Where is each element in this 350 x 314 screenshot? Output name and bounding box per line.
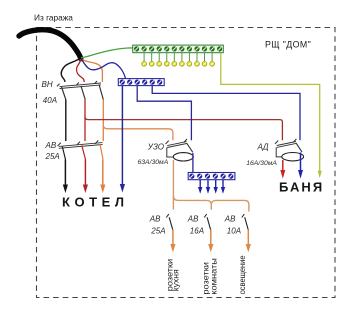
svg-text:16А: 16А <box>190 226 204 235</box>
svg-text:АД: АД <box>257 143 269 152</box>
svg-text:16А/30мА: 16А/30мА <box>246 160 277 167</box>
svg-text:АВ: АВ <box>149 215 161 224</box>
svg-text:КОТЕЛ: КОТЕЛ <box>62 194 129 209</box>
svg-text:УЗО: УЗО <box>147 142 164 151</box>
svg-text:кухня: кухня <box>172 269 181 291</box>
svg-text:АВ: АВ <box>187 215 199 224</box>
svg-text:БАНЯ: БАНЯ <box>279 179 324 194</box>
svg-text:РЩ "ДОМ": РЩ "ДОМ" <box>265 39 311 49</box>
svg-text:АВ: АВ <box>45 141 57 150</box>
svg-text:63А/30мА: 63А/30мА <box>138 159 169 166</box>
svg-text:ВН: ВН <box>42 80 53 89</box>
svg-text:Из гаража: Из гаража <box>34 13 73 23</box>
svg-text:25А: 25А <box>45 152 60 161</box>
svg-text:10А: 10А <box>227 226 241 235</box>
svg-text:освещение: освещение <box>238 255 247 294</box>
svg-text:40А: 40А <box>43 96 57 105</box>
svg-text:25А: 25А <box>150 226 165 235</box>
svg-text:АВ: АВ <box>224 215 236 224</box>
svg-text:комнаты: комнаты <box>209 258 218 295</box>
